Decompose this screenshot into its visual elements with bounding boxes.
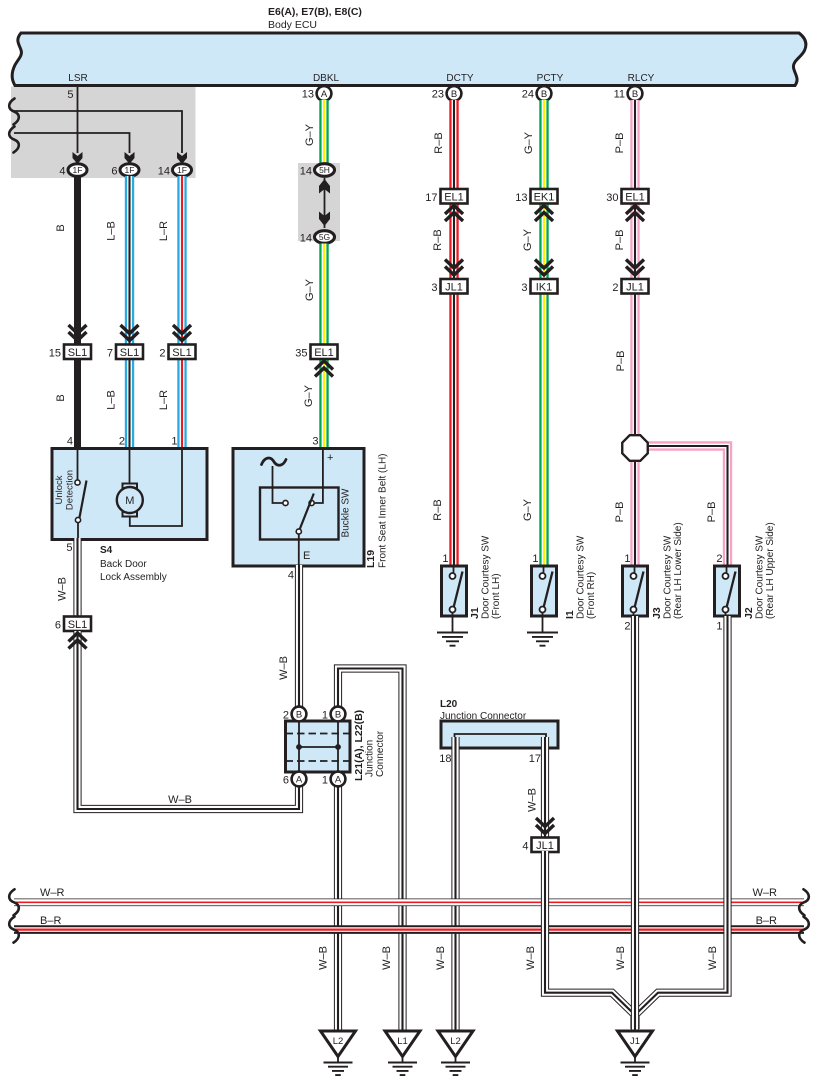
svg-text:2: 2 xyxy=(119,436,125,448)
svg-text:+: + xyxy=(327,452,333,464)
buckle switch arm xyxy=(299,494,314,532)
S4 switch arm xyxy=(80,481,87,518)
svg-text:5G: 5G xyxy=(319,232,330,242)
svg-text:3: 3 xyxy=(431,282,437,294)
svg-text:14: 14 xyxy=(158,166,170,178)
I1 pin line xyxy=(543,566,545,573)
svg-text:R–B: R–B xyxy=(432,229,444,250)
connector EL1 pin 35 xyxy=(311,345,338,360)
svg-text:W–B: W–B xyxy=(435,946,447,970)
connector SL1 pin 2 xyxy=(169,345,196,360)
svg-text:1F: 1F xyxy=(125,165,135,175)
svg-text:L–R: L–R xyxy=(158,221,170,241)
S4 motor lead from pin 2 xyxy=(129,448,131,484)
connector SL1 pin 15 xyxy=(64,345,91,360)
S4 Back Door Lock Assembly box xyxy=(52,449,207,540)
wire branch to connector 6 xyxy=(14,133,130,153)
buckle switch contact left xyxy=(283,500,288,505)
svg-text:DBKL: DBKL xyxy=(313,73,340,84)
wire W-B S4 to SL1 6 xyxy=(73,538,81,618)
L21 bus bar xyxy=(299,746,338,748)
svg-text:1F: 1F xyxy=(177,165,187,175)
svg-text:Door Courtesy SW: Door Courtesy SW xyxy=(755,535,766,619)
L21 circle 1A xyxy=(331,772,346,787)
wire W-B JL1 4 to ground J1 xyxy=(545,851,635,1029)
wire LSR pin 5 xyxy=(77,85,79,153)
wire W-B L19 to L21 pin 2B xyxy=(295,565,303,707)
svg-text:EL1: EL1 xyxy=(314,347,334,359)
svg-text:A: A xyxy=(296,775,303,786)
svg-text:Buckle SW: Buckle SW xyxy=(341,488,352,537)
svg-text:Door Courtesy SW: Door Courtesy SW xyxy=(576,535,587,619)
svg-text:W–B: W–B xyxy=(707,946,719,970)
svg-text:11: 11 xyxy=(614,89,625,101)
svg-text:W–B: W–B xyxy=(318,946,330,970)
wire band B-R xyxy=(14,925,804,934)
J3 contact top xyxy=(631,573,637,579)
J1 pin line xyxy=(453,566,455,573)
connector JL1 pin 2 xyxy=(622,279,649,294)
wire band W-R xyxy=(14,898,804,906)
J3 line to pin 2 xyxy=(633,613,635,617)
svg-text:SL1: SL1 xyxy=(120,347,140,359)
svg-text:(Rear LH Upper Side): (Rear LH Upper Side) xyxy=(765,522,776,619)
svg-text:SL1: SL1 xyxy=(68,347,88,359)
J2 switch arm xyxy=(727,572,736,607)
arrow into 1F pin 4 xyxy=(73,152,83,164)
svg-text:1: 1 xyxy=(322,775,328,787)
connector 1F pin 6 xyxy=(120,164,139,177)
svg-text:2: 2 xyxy=(624,621,630,633)
J3 Door Courtesy SW box xyxy=(623,566,648,616)
chevron into SL1 7 xyxy=(121,325,139,341)
J2 contact bottom xyxy=(723,607,729,613)
J1 line to ground xyxy=(452,613,454,633)
svg-text:G–Y: G–Y xyxy=(304,123,316,146)
svg-text:1: 1 xyxy=(442,553,448,565)
svg-text:Connector: Connector xyxy=(375,730,386,777)
svg-text:5: 5 xyxy=(67,89,73,101)
L21 circle 6A xyxy=(292,772,307,787)
connector IK1 pin 3 xyxy=(531,279,558,294)
ECU connector circle A (DBKL 13) xyxy=(317,86,332,101)
svg-text:(Front LH): (Front LH) xyxy=(491,573,502,619)
svg-text:Junction: Junction xyxy=(365,740,376,777)
svg-text:13: 13 xyxy=(515,192,527,204)
svg-text:L2: L2 xyxy=(333,1036,344,1047)
wire P-B RLCY xyxy=(630,100,639,190)
svg-text:M: M xyxy=(125,495,134,507)
J3 contact bottom xyxy=(631,607,637,613)
svg-text:W–B: W–B xyxy=(527,788,539,812)
svg-text:P–B: P–B xyxy=(614,502,626,523)
svg-text:Lock Assembly: Lock Assembly xyxy=(100,572,167,583)
wire break squiggle 1 xyxy=(9,99,19,125)
svg-text:18: 18 xyxy=(439,753,451,765)
svg-text:W–B: W–B xyxy=(57,577,69,601)
ECU connector circle B (PCTY 24) xyxy=(537,86,552,101)
shield gray block DBKL xyxy=(298,163,340,241)
svg-text:Door Courtesy SW: Door Courtesy SW xyxy=(481,535,492,619)
svg-text:17: 17 xyxy=(529,753,541,765)
chevron below EL1 35 xyxy=(315,361,333,377)
wire L-B xyxy=(125,176,134,347)
I1 line to ground xyxy=(542,613,544,633)
chevron into SL1 15 xyxy=(69,325,87,341)
S4 switch contact top xyxy=(75,480,80,485)
svg-text:W–B: W–B xyxy=(381,946,393,970)
band break squiggles right xyxy=(799,889,809,915)
wire W-B loop L21 1B to ground L1 xyxy=(338,669,403,1032)
L21 dashed row top xyxy=(286,733,351,735)
L21 bus dot right xyxy=(335,744,341,750)
J1 ground symbol xyxy=(437,633,468,646)
svg-text:J3: J3 xyxy=(651,607,663,619)
svg-text:Detection: Detection xyxy=(65,470,76,510)
connector SL1 pin 7 xyxy=(116,345,143,360)
svg-text:PCTY: PCTY xyxy=(537,73,564,84)
J2 contact top xyxy=(723,573,729,579)
chevron below SL1 6 xyxy=(69,633,87,649)
svg-text:B: B xyxy=(335,710,341,721)
svg-text:B: B xyxy=(296,710,302,721)
svg-text:P–B: P–B xyxy=(614,133,626,154)
shield gray block left xyxy=(11,87,196,179)
wire G-Y DBKL upper xyxy=(319,100,328,165)
svg-text:G–Y: G–Y xyxy=(522,228,534,251)
svg-text:1: 1 xyxy=(716,621,722,633)
wire P-B branch to J2 xyxy=(645,446,728,567)
svg-text:7: 7 xyxy=(107,348,113,360)
svg-text:2: 2 xyxy=(716,553,722,565)
Body ECU band E6/E7/E8 xyxy=(12,33,806,86)
svg-text:EK1: EK1 xyxy=(534,192,555,204)
svg-text:LSR: LSR xyxy=(68,73,87,84)
svg-text:3: 3 xyxy=(312,436,318,448)
connector JL1 pin 4 xyxy=(532,838,559,853)
svg-text:SL1: SL1 xyxy=(172,347,192,359)
svg-text:P–B: P–B xyxy=(614,230,626,251)
svg-text:W–B: W–B xyxy=(168,794,192,806)
wire branch to connector 14 xyxy=(14,111,182,153)
svg-text:2: 2 xyxy=(159,348,165,360)
arrow into 1F pin 14 xyxy=(177,152,187,164)
connector EL1 pin 17 xyxy=(441,189,468,204)
arrow into 1F pin 6 xyxy=(125,152,135,164)
L21 dashed row bottom xyxy=(286,760,351,762)
J1 switch arm xyxy=(454,572,463,607)
svg-text:4: 4 xyxy=(67,436,73,448)
svg-text:1: 1 xyxy=(171,436,177,448)
svg-text:B: B xyxy=(451,89,457,100)
svg-text:(Front RH): (Front RH) xyxy=(586,572,597,619)
wire W-B J3 to ground J1 xyxy=(631,616,639,1031)
svg-text:E: E xyxy=(303,550,310,562)
svg-text:B: B xyxy=(55,394,67,401)
J2 line to pin 1 xyxy=(725,613,727,617)
connector JL1 pin 3 xyxy=(441,279,468,294)
L19 pin line from 3 xyxy=(314,448,323,503)
svg-text:E6(A), E7(B), E8(C): E6(A), E7(B), E8(C) xyxy=(268,6,362,18)
band break squiggles left xyxy=(9,889,19,915)
connector EK1 pin 13 xyxy=(531,189,558,204)
J2 pin line xyxy=(726,566,728,573)
svg-text:35: 35 xyxy=(295,348,307,360)
J1 Door Courtesy SW box xyxy=(442,566,467,616)
svg-text:L19: L19 xyxy=(365,550,377,568)
svg-text:Door Courtesy SW: Door Courtesy SW xyxy=(663,535,674,619)
ground triangle L2 second xyxy=(438,1031,473,1057)
arrow down into 5G xyxy=(319,212,330,227)
line to pin E xyxy=(298,534,300,566)
svg-text:A: A xyxy=(335,775,342,786)
wire W-B L21 1A to ground L2 xyxy=(334,786,342,1031)
svg-text:G–Y: G–Y xyxy=(522,498,534,521)
motor M xyxy=(123,484,138,490)
svg-text:6: 6 xyxy=(283,775,289,787)
svg-text:B: B xyxy=(541,89,547,100)
svg-text:J1: J1 xyxy=(469,607,481,619)
I1 contact bottom xyxy=(540,607,546,613)
wire B (LSR to S4 pin 4) xyxy=(74,176,81,347)
svg-text:R–B: R–B xyxy=(433,132,445,153)
connector 1F pin 4 xyxy=(68,164,87,177)
svg-text:Front Seat Inner Belt (LH): Front Seat Inner Belt (LH) xyxy=(378,454,389,569)
S4 motor lead from pin 1 xyxy=(130,448,182,526)
svg-text:(Rear LH Lower Side): (Rear LH Lower Side) xyxy=(673,522,684,619)
chevron below EK1 xyxy=(535,206,553,222)
wire break squiggle 2 xyxy=(9,127,19,153)
wire G-Y DBKL lower xyxy=(319,358,328,450)
svg-text:W–R: W–R xyxy=(753,887,778,899)
svg-text:4: 4 xyxy=(288,570,294,582)
chevron below EL1 17 xyxy=(445,206,463,222)
ground triangle L2 xyxy=(321,1031,356,1057)
chevron above IK1 xyxy=(535,260,553,276)
connector 5H pin 14 xyxy=(315,164,335,177)
buckle switch contact bottom xyxy=(296,529,301,534)
svg-text:1: 1 xyxy=(532,553,538,565)
L19 thermal squiggle xyxy=(262,458,287,465)
svg-text:S4: S4 xyxy=(100,545,113,556)
wire R-B DCTY xyxy=(449,100,458,190)
ECU connector circle B (DCTY 23) xyxy=(447,86,462,101)
svg-text:W–R: W–R xyxy=(40,887,65,899)
svg-text:EL1: EL1 xyxy=(625,192,645,204)
svg-text:30: 30 xyxy=(606,192,618,204)
I1 switch arm xyxy=(544,572,553,607)
svg-text:IK1: IK1 xyxy=(536,282,553,294)
L20 bus bar xyxy=(455,734,547,748)
svg-text:RLCY: RLCY xyxy=(628,73,655,84)
svg-text:3: 3 xyxy=(521,282,527,294)
L21 bus dot left xyxy=(296,744,302,750)
svg-text:13: 13 xyxy=(302,89,314,101)
chevron into SL1 2 xyxy=(173,325,191,341)
svg-text:14: 14 xyxy=(300,233,312,245)
svg-text:14: 14 xyxy=(300,166,312,178)
svg-text:L2: L2 xyxy=(450,1036,461,1047)
svg-text:G–Y: G–Y xyxy=(303,384,315,407)
svg-text:1: 1 xyxy=(624,553,630,565)
svg-text:L–R: L–R xyxy=(158,390,170,410)
svg-text:1: 1 xyxy=(322,710,328,722)
wire L-R xyxy=(177,176,186,347)
connector 1F pin 14 xyxy=(173,164,192,177)
svg-text:P–B: P–B xyxy=(706,502,718,523)
L21 circle 2B xyxy=(292,707,307,722)
svg-text:JL1: JL1 xyxy=(445,282,463,294)
I1 ground symbol xyxy=(527,633,558,646)
svg-text:G–Y: G–Y xyxy=(304,278,316,301)
svg-text:17: 17 xyxy=(425,192,437,204)
S4 switch contact bottom xyxy=(75,517,80,522)
svg-text:B–R: B–R xyxy=(756,915,777,927)
svg-text:JL1: JL1 xyxy=(626,282,644,294)
svg-text:L21(A), L22(B): L21(A), L22(B) xyxy=(353,710,365,781)
svg-text:4: 4 xyxy=(522,841,528,853)
junction connector L21/L22 box xyxy=(286,721,351,772)
ground triangle L1 xyxy=(385,1031,420,1057)
svg-text:B: B xyxy=(632,89,638,100)
I1 contact top xyxy=(540,573,546,579)
svg-text:W–B: W–B xyxy=(615,946,627,970)
wire W-B L20 17 to JL1 4 xyxy=(541,737,549,838)
svg-text:B: B xyxy=(55,224,67,231)
svg-text:L–B: L–B xyxy=(106,221,118,241)
L21 circle 1B xyxy=(331,707,346,722)
svg-text:6: 6 xyxy=(111,166,117,178)
S4 unlock switch line xyxy=(77,448,79,480)
svg-text:R–B: R–B xyxy=(432,499,444,520)
J1 contact bottom xyxy=(450,607,456,613)
svg-text:J2: J2 xyxy=(743,607,755,619)
svg-text:L1: L1 xyxy=(397,1036,408,1047)
wire P-B to J3 xyxy=(630,459,639,567)
chevron below EL1 30 xyxy=(626,206,644,222)
L19 Front Seat Inner Belt box xyxy=(233,449,364,567)
svg-text:5: 5 xyxy=(66,542,72,554)
svg-text:J1: J1 xyxy=(630,1036,640,1047)
svg-text:Back Door: Back Door xyxy=(100,559,147,570)
wire W-B L20 18 to ground L2 xyxy=(451,737,459,1031)
arrow up into 5H xyxy=(319,179,330,194)
svg-text:DCTY: DCTY xyxy=(446,73,474,84)
svg-text:2: 2 xyxy=(612,282,618,294)
svg-text:I1: I1 xyxy=(564,610,576,619)
svg-text:W–B: W–B xyxy=(278,656,290,680)
svg-text:23: 23 xyxy=(432,89,444,101)
svg-text:G–Y: G–Y xyxy=(523,131,535,154)
svg-text:1F: 1F xyxy=(73,165,83,175)
J1 contact top xyxy=(450,573,456,579)
ground triangle J1 xyxy=(618,1031,653,1057)
svg-text:L20: L20 xyxy=(440,699,458,710)
svg-text:24: 24 xyxy=(522,89,534,101)
buckle switch contact right xyxy=(309,500,314,505)
chevron above JL1 4 xyxy=(536,818,554,834)
svg-text:5H: 5H xyxy=(319,165,330,175)
wire W-B SL1 to junction L21 pin 6A xyxy=(78,631,300,809)
splice octagon xyxy=(622,435,648,461)
svg-text:6: 6 xyxy=(55,620,61,632)
connector 5G pin 14 xyxy=(315,231,335,244)
svg-text:A: A xyxy=(321,89,328,100)
L20 junction connector box xyxy=(441,721,558,748)
connector line 5H to 5G xyxy=(324,178,326,228)
chevron above JL1 3 xyxy=(445,260,463,276)
svg-text:EL1: EL1 xyxy=(444,192,464,204)
wire G-Y PCTY xyxy=(539,100,548,190)
J3 switch arm xyxy=(635,572,644,607)
chevron above JL1 2 xyxy=(626,260,644,276)
svg-text:B–R: B–R xyxy=(40,915,61,927)
L21 internal wires xyxy=(299,714,338,779)
ECU connector circle B (RLCY 11) xyxy=(628,86,643,101)
svg-text:P–B: P–B xyxy=(615,351,627,372)
S4 switch line to pin 5 xyxy=(77,523,79,541)
svg-text:15: 15 xyxy=(49,348,61,360)
I1 Door Courtesy SW box xyxy=(532,566,557,616)
svg-text:JL1: JL1 xyxy=(536,840,554,852)
J3 pin line xyxy=(634,566,636,573)
svg-text:Body ECU: Body ECU xyxy=(268,19,317,31)
J2 Door Courtesy SW box xyxy=(715,566,740,616)
L19 inner switch box xyxy=(260,488,339,540)
wire W-B J2 to ground J1 xyxy=(636,616,728,1029)
L19 line from squiggle xyxy=(273,466,284,503)
svg-text:L–B: L–B xyxy=(106,390,118,410)
connector EL1 pin 30 xyxy=(622,189,649,204)
svg-text:SL1: SL1 xyxy=(68,619,88,631)
svg-text:4: 4 xyxy=(59,166,65,178)
svg-text:W–B: W–B xyxy=(525,946,537,970)
wire G-Y DBKL middle xyxy=(319,244,328,348)
svg-text:Unlock: Unlock xyxy=(54,475,65,504)
svg-text:Junction Connector: Junction Connector xyxy=(440,711,527,722)
svg-text:2: 2 xyxy=(283,710,289,722)
connector SL1 pin 6 xyxy=(64,617,91,632)
